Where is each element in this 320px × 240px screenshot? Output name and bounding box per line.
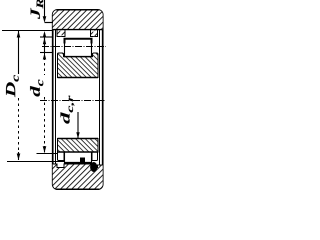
roller bottom (64, 153, 92, 164)
roller top (64, 38, 92, 57)
Dc dimension (2, 31, 64, 162)
raceway line inner top (64, 56, 93, 58)
pitch line (dash-dot) top (42, 46, 106, 48)
dc dimension (37, 37, 58, 154)
Dc label (6, 75, 19, 97)
bore edge bottom (58, 138, 99, 140)
bearing outline (53, 10, 103, 189)
bore edge top (58, 77, 99, 79)
dcr label (61, 95, 75, 123)
JR dimension (43, 0, 53, 40)
right face chamfer line (99, 30, 101, 166)
inner ring bottom (hatched) (58, 139, 99, 153)
outer ring bottom (hatched) (52, 164, 104, 189)
raceway line inner bottom (58, 151, 99, 153)
roller end blob bottom right (90, 162, 97, 172)
left face chamfer line (55, 30, 57, 165)
rib-top extension line (40, 52, 53, 54)
raceway line outer top (53, 29, 102, 31)
cage slit right flange (93, 30, 94, 36)
cage slit left flange (60, 30, 61, 36)
axis line (dash-dot) (40, 100, 106, 102)
inner ring top (hatched) (58, 53, 99, 78)
dc label (30, 80, 43, 97)
outer ring top (hatched) (52, 10, 104, 37)
JR label (31, 0, 44, 19)
dc upper arrow (to rib line) (43, 53, 46, 60)
inner ring bottom rib right (white) (92, 152, 98, 161)
inner ring bottom rib left (white) (58, 152, 65, 161)
dcr dimension (76, 112, 79, 139)
